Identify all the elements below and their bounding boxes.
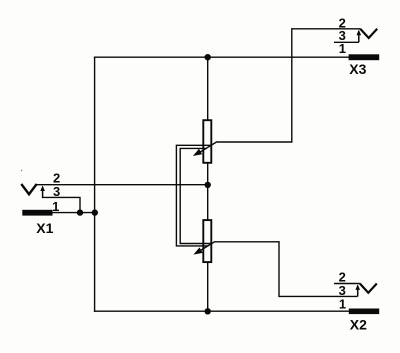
junction dot: top rail / center bus (205, 54, 211, 60)
stray speck near X1 (21, 170, 22, 171)
junction dot: X1 pin3 to pin1 (77, 209, 83, 215)
X1 pin 3 wire (43, 197, 80, 212)
svg-text:X1: X1 (36, 220, 53, 236)
potentiometer R1 wiper arrow (193, 142, 292, 156)
junction dot: bottom rail / center bus (205, 308, 211, 314)
X3 tip spring V (360, 29, 377, 38)
connector X1 (jack socket, left) (21, 170, 95, 236)
X2 tip spring V (360, 284, 377, 293)
X1 tip spring V (21, 184, 36, 194)
X3 pin 2 wire (292, 28, 360, 30)
X1 switch arrow (pin3 normally-closed contact) (42, 190, 44, 198)
junction dot: X1 pin1 to left bus (92, 209, 98, 215)
wire: bottom horizontal rail y=311 (left bus to X2 pin1 bar) (95, 310, 349, 312)
connector X2 (jack socket, bottom right) (279, 270, 379, 333)
X2 pin 3 wire (279, 295, 358, 297)
potentiometer R2 (bottom) body (203, 220, 211, 262)
svg-text:X3: X3 (349, 61, 366, 77)
X3 pin 3 wire (334, 41, 359, 43)
X3 sleeve bar (349, 54, 380, 60)
X1 pin 1 wire (51, 212, 95, 214)
X3 switch arrow (358, 34, 360, 42)
svg-text:X2: X2 (350, 316, 367, 332)
wire: R2 wiper route to X2 pin3 (278, 242, 280, 297)
svg-text:3: 3 (53, 184, 60, 199)
X2 sleeve bar (349, 309, 379, 315)
wire: center bus middle segment (R1 bottom to node A to R2 top) (207, 163, 209, 221)
svg-text:3: 3 (339, 283, 346, 298)
wire: top horizontal rail y=57 (left bus to X3 pin1 bar) (95, 56, 349, 58)
potentiometer R1 (top) body (203, 120, 211, 163)
wire: X3 pin2 vertical drop to R1 wiper (291, 29, 293, 142)
wire: left bus vertical (X3 pin1 / X1 pin1 / X2 pin1 common) (94, 57, 96, 311)
X2 pin 2 wire (334, 283, 360, 285)
svg-text:1: 1 (52, 199, 59, 214)
wire: center bus bottom segment (R2 bottom to bottom rail) (207, 262, 209, 311)
svg-text:1: 1 (339, 41, 346, 56)
X1 sleeve bar (22, 210, 52, 216)
connector X3 (jack socket, top right) (292, 16, 379, 77)
wire: wiper loop outer C (R1 wiper to R2 wiper) (176, 145, 211, 246)
X2 switch arrow (357, 289, 359, 296)
svg-text:1: 1 (339, 297, 346, 312)
wire: center bus top segment (top rail to R1 top terminal) (207, 57, 209, 120)
junction dot: node A (X1 pin2 / center bus) (205, 182, 211, 188)
wire: X1 pin2 horizontal to node A (37, 184, 208, 186)
wire: wiper loop inner C (R1 wiper to R2 wiper) (180, 148, 212, 243)
potentiometer R2 wiper arrow (193, 242, 279, 255)
